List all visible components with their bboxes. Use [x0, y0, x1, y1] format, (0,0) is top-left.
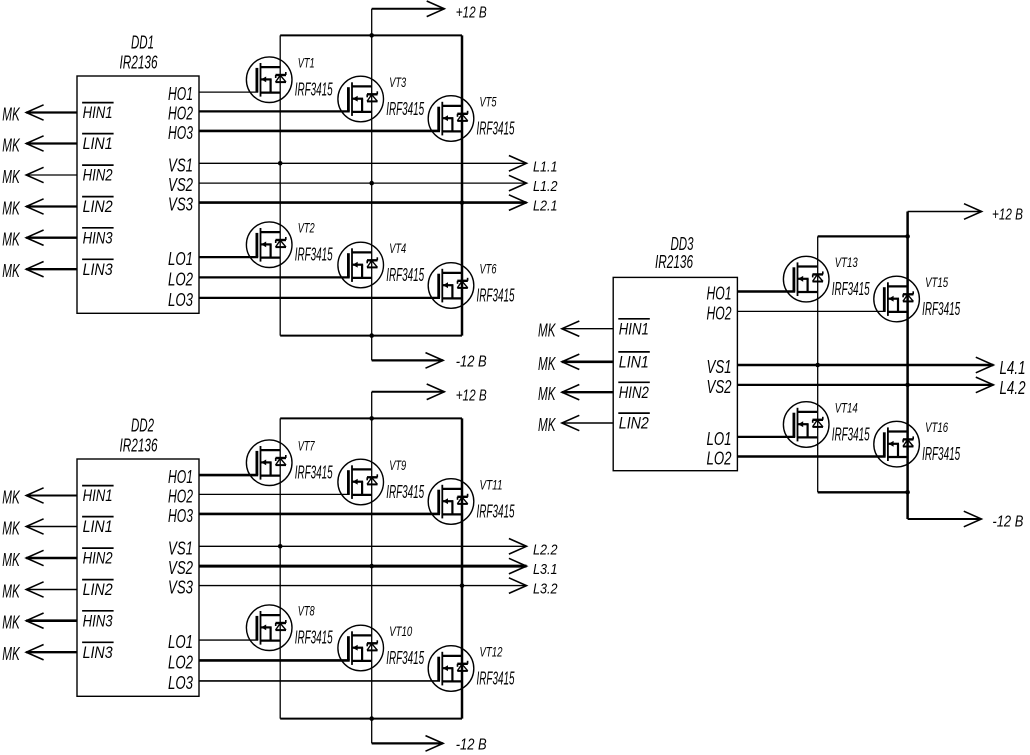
svg-text:HO1: HO1 [168, 467, 193, 487]
svg-text:MK: MK [2, 550, 20, 570]
svg-text:MK: MK [2, 136, 20, 156]
svg-text:VS3: VS3 [168, 578, 193, 598]
svg-text:HIN2: HIN2 [83, 166, 113, 185]
svg-text:MK: MK [2, 261, 20, 281]
svg-text:IR2136: IR2136 [655, 252, 694, 272]
svg-text:IRF3415: IRF3415 [386, 482, 425, 502]
svg-text:HO2: HO2 [707, 303, 732, 323]
svg-text:MK: MK [2, 199, 20, 219]
svg-text:MK: MK [538, 354, 556, 374]
svg-text:VT3: VT3 [389, 74, 406, 90]
svg-text:VT11: VT11 [480, 477, 503, 493]
svg-text:IRF3415: IRF3415 [295, 628, 334, 648]
svg-text:VS2: VS2 [707, 377, 732, 397]
svg-text:MK: MK [2, 488, 20, 508]
svg-text:VS1: VS1 [168, 155, 193, 175]
svg-text:-12 В: -12 В [992, 513, 1023, 530]
svg-text:IR2136: IR2136 [120, 53, 159, 73]
svg-text:MK: MK [2, 230, 20, 250]
svg-text:LO2: LO2 [168, 269, 193, 289]
svg-text:DD2: DD2 [131, 416, 154, 436]
svg-text:VS1: VS1 [707, 357, 732, 377]
svg-text:IRF3415: IRF3415 [295, 463, 334, 483]
svg-text:IRF3415: IRF3415 [477, 669, 516, 689]
svg-text:VS3: VS3 [168, 195, 193, 215]
svg-text:LO1: LO1 [168, 249, 193, 269]
svg-text:VT15: VT15 [925, 274, 948, 290]
svg-text:HO3: HO3 [168, 506, 193, 526]
svg-text:HO1: HO1 [168, 84, 193, 104]
svg-text:L4.1: L4.1 [1000, 358, 1026, 378]
svg-text:MK: MK [538, 415, 556, 435]
svg-text:HIN1: HIN1 [83, 103, 113, 122]
svg-text:L2.2: L2.2 [533, 541, 558, 558]
svg-text:VT10: VT10 [389, 623, 412, 639]
svg-text:HIN3: HIN3 [83, 228, 113, 247]
svg-text:VT1: VT1 [298, 55, 315, 71]
svg-text:LIN2: LIN2 [83, 580, 113, 599]
svg-text:IRF3415: IRF3415 [922, 444, 961, 464]
svg-text:MK: MK [2, 519, 20, 539]
svg-text:IRF3415: IRF3415 [295, 80, 334, 100]
svg-text:L1.1: L1.1 [533, 158, 558, 175]
svg-text:+12 В: +12 В [456, 388, 487, 405]
svg-text:VT5: VT5 [480, 94, 497, 110]
svg-text:VT8: VT8 [298, 603, 315, 619]
svg-text:+12 В: +12 В [992, 207, 1023, 224]
svg-text:HIN1: HIN1 [619, 319, 649, 338]
svg-text:VT2: VT2 [298, 220, 315, 236]
svg-text:L4.2: L4.2 [1000, 378, 1026, 398]
svg-text:LIN2: LIN2 [619, 414, 649, 433]
svg-text:IRF3415: IRF3415 [386, 99, 425, 119]
svg-text:HIN2: HIN2 [83, 549, 113, 568]
svg-text:VT6: VT6 [480, 261, 497, 277]
svg-text:HIN3: HIN3 [83, 611, 113, 630]
svg-text:LIN3: LIN3 [83, 260, 113, 279]
svg-text:IRF3415: IRF3415 [477, 119, 516, 139]
svg-text:IRF3415: IRF3415 [477, 286, 516, 306]
svg-text:HO2: HO2 [168, 486, 193, 506]
svg-text:IRF3415: IRF3415 [922, 299, 961, 319]
svg-text:LIN2: LIN2 [83, 197, 113, 216]
svg-text:LO3: LO3 [168, 290, 193, 310]
svg-text:HO2: HO2 [168, 103, 193, 123]
svg-text:LIN3: LIN3 [83, 643, 113, 662]
svg-text:MK: MK [2, 613, 20, 633]
svg-text:-12 В: -12 В [456, 354, 487, 371]
svg-text:MK: MK [538, 321, 556, 341]
svg-text:L2.1: L2.1 [533, 198, 558, 215]
svg-text:MK: MK [2, 582, 20, 602]
svg-text:L1.2: L1.2 [533, 178, 558, 195]
svg-text:LO3: LO3 [168, 673, 193, 693]
svg-text:L3.2: L3.2 [533, 581, 558, 598]
svg-text:VT9: VT9 [389, 457, 406, 473]
svg-text:L3.1: L3.1 [533, 561, 558, 578]
svg-text:IR2136: IR2136 [120, 436, 159, 456]
svg-text:IRF3415: IRF3415 [832, 425, 871, 445]
svg-text:LO1: LO1 [707, 429, 732, 449]
svg-text:HIN2: HIN2 [619, 383, 649, 402]
svg-text:IRF3415: IRF3415 [386, 648, 425, 668]
svg-text:HIN1: HIN1 [83, 486, 113, 505]
svg-text:VT12: VT12 [480, 644, 503, 660]
svg-text:VT7: VT7 [298, 438, 316, 454]
svg-text:LO2: LO2 [707, 449, 732, 469]
svg-text:DD1: DD1 [131, 33, 154, 53]
svg-text:IRF3415: IRF3415 [295, 245, 334, 265]
svg-text:LIN1: LIN1 [619, 353, 649, 372]
svg-text:-12 В: -12 В [456, 737, 487, 754]
svg-text:MK: MK [2, 644, 20, 664]
svg-text:MK: MK [2, 105, 20, 125]
svg-text:DD3: DD3 [671, 234, 694, 254]
svg-text:LO1: LO1 [168, 632, 193, 652]
svg-text:HO3: HO3 [168, 123, 193, 143]
svg-text:LO2: LO2 [168, 652, 193, 672]
svg-text:IRF3415: IRF3415 [386, 265, 425, 285]
svg-text:VS2: VS2 [168, 558, 193, 578]
svg-text:VS2: VS2 [168, 175, 193, 195]
svg-text:MK: MK [2, 167, 20, 187]
svg-text:IRF3415: IRF3415 [477, 502, 516, 522]
svg-text:LIN1: LIN1 [83, 134, 113, 153]
svg-text:VT13: VT13 [835, 254, 858, 270]
svg-text:VT4: VT4 [389, 240, 406, 256]
svg-text:VT16: VT16 [925, 419, 948, 435]
svg-text:LIN1: LIN1 [83, 517, 113, 536]
svg-text:IRF3415: IRF3415 [832, 279, 871, 299]
svg-text:HO1: HO1 [707, 284, 732, 304]
svg-text:+12 В: +12 В [456, 5, 487, 22]
svg-text:MK: MK [538, 384, 556, 404]
svg-text:VT14: VT14 [835, 400, 858, 416]
svg-text:VS1: VS1 [168, 538, 193, 558]
